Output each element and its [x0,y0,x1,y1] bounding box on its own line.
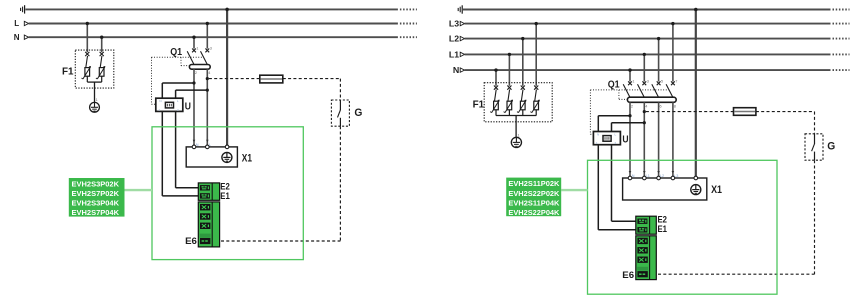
svg-text:L2: L2 [660,174,664,178]
svg-text:N: N [159,99,161,103]
svg-text:2: 2 [631,105,633,109]
svg-text:L1: L1 [646,174,650,178]
svg-text:N: N [14,33,20,42]
svg-text:L: L [14,19,19,28]
svg-text:5: 5 [661,80,663,84]
svg-text:L: L [209,143,211,147]
svg-text:EVH2S7P02K: EVH2S7P02K [72,189,120,198]
svg-text:4: 4 [645,105,647,109]
svg-text:EVH2S22P02K: EVH2S22P02K [508,189,560,198]
svg-text:U: U [185,101,191,112]
svg-text:F1: F1 [473,100,485,111]
svg-text:E1: E1 [220,191,230,201]
svg-text:L1: L1 [449,49,459,59]
svg-text:G: G [827,141,835,153]
svg-text:1: 1 [518,133,520,137]
svg-text:N: N [453,65,459,75]
svg-text:4: 4 [208,71,210,75]
svg-text:1: 1 [96,98,98,102]
svg-text:EVH2S3P04K: EVH2S3P04K [72,199,120,208]
svg-text:N: N [632,174,635,178]
svg-text:2: 2 [195,71,197,75]
svg-text:EVH2S22P04K: EVH2S22P04K [508,208,560,217]
svg-text:1: 1 [196,47,198,51]
svg-text:8: 8 [674,105,676,109]
svg-text:E6: E6 [185,236,197,247]
svg-text:F1: F1 [62,66,74,77]
svg-text:E6: E6 [622,270,634,281]
svg-text:EVH2S11P02K: EVH2S11P02K [508,179,560,188]
svg-text:EVH2S7P04K: EVH2S7P04K [72,208,120,217]
svg-text:7: 7 [675,80,677,84]
svg-text:X1: X1 [711,184,722,196]
svg-text:L3: L3 [674,174,678,178]
svg-text:N: N [196,143,199,147]
svg-text:EVH2S11P04K: EVH2S11P04K [508,198,560,207]
svg-text:U: U [622,135,628,146]
svg-text:G: G [354,107,362,119]
svg-text:6: 6 [660,105,662,109]
svg-text:X1: X1 [242,152,252,164]
svg-text:3: 3 [647,80,649,84]
svg-text:3: 3 [210,47,212,51]
svg-text:Q1: Q1 [608,80,620,91]
svg-text:Q1: Q1 [170,47,182,58]
svg-text:L2: L2 [449,34,459,44]
svg-text:L3: L3 [449,19,459,29]
svg-text:N: N [597,133,599,137]
svg-text:EVH2S3P02K: EVH2S3P02K [72,179,120,188]
svg-text:E1: E1 [658,224,668,234]
svg-text:1: 1 [632,80,634,84]
